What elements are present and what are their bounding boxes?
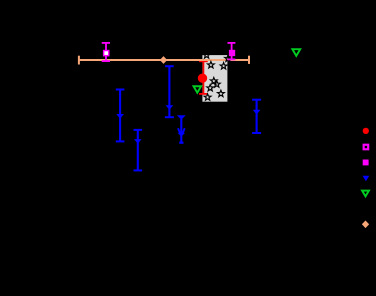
blue upper limit 1 [116,90,125,142]
star marker 4 [210,78,217,84]
orange x-errorbar with caps [79,56,249,65]
blue upper limit 4 top caret [177,115,186,143]
blue upper limit 5 [252,100,261,133]
star marker 6 [207,85,214,91]
legend magenta filled square [363,160,369,166]
orange diamond marker [160,56,167,64]
green open triangle 1 [194,86,202,93]
star marker 9 [225,55,232,61]
star marker 1 [203,52,210,58]
magenta filled square marker right [229,50,235,56]
legend blue filled triangle [363,176,370,182]
legend green open triangle [362,191,369,197]
blue upper limit 4 lower caret [178,133,185,137]
magenta errorbar right [228,43,236,60]
shaded model region [202,55,227,102]
red circle marker [198,74,207,83]
blue upper limit 4 arrow barb left [178,128,180,134]
star marker 3 [220,63,227,70]
blue upper limit 3 [165,66,174,117]
legend magenta open square [364,145,369,150]
star marker 8 [204,94,211,100]
red errorbar [199,60,208,94]
blue upper limit 4 arrow barb right [182,128,184,134]
magenta open square marker left [104,51,109,56]
blue upper limit 4 bottom cap [179,142,183,144]
legend orange diamond [362,221,369,229]
star marker 7 [218,90,225,96]
blue upper limit 2 [134,130,143,171]
magenta errorbar left [102,43,110,61]
star marker 2 [208,62,215,68]
green open triangle 2 [292,49,300,56]
star marker 5 [213,81,220,87]
legend red circle [363,128,369,134]
